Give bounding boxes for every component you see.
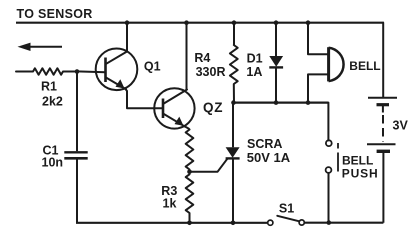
wire bottom rail right <box>305 222 384 224</box>
svg-text:BELL: BELL <box>342 153 373 167</box>
svg-text:TO SENSOR: TO SENSOR <box>17 7 93 21</box>
transistor Q1 <box>96 49 138 91</box>
resistor R4 <box>230 23 238 103</box>
svg-text:1k: 1k <box>163 196 177 210</box>
wire top rail to battery <box>382 23 384 97</box>
wire bell lower stub <box>308 74 328 102</box>
svg-text:3V: 3V <box>393 119 409 133</box>
resistor R3 lower half <box>186 174 194 223</box>
switch BELL PUSH contact bottom <box>326 167 332 173</box>
node SCR cathode / bottom rail <box>231 221 236 226</box>
label D1 value <box>246 52 262 79</box>
bell BELL <box>329 47 344 81</box>
svg-text:S1: S1 <box>279 202 294 216</box>
label R4 value <box>194 51 225 79</box>
transistor QZ <box>154 88 194 128</box>
wire QZ collector to top rail <box>186 23 188 90</box>
resistor R1 <box>16 68 77 74</box>
node R1 / Q1 base junction <box>75 69 80 74</box>
svg-text:50V 1A: 50V 1A <box>247 150 291 165</box>
node R4 / SCR junction <box>231 100 236 105</box>
bell push actuator bar <box>337 143 339 172</box>
svg-text:2k2: 2k2 <box>42 94 63 108</box>
wire bell push to bottom rail <box>328 173 330 223</box>
wire R3 junction to SCR gate <box>190 159 228 172</box>
svg-text:10n: 10n <box>42 156 64 170</box>
wire Q1 collector to top rail <box>126 23 128 52</box>
switch S1 contact left <box>268 220 273 225</box>
label R1 value <box>41 79 63 108</box>
label SCRA value <box>247 137 291 165</box>
resistor R3 upper half <box>185 126 194 169</box>
wire bell upper stub <box>308 23 328 55</box>
switch S1 blade <box>277 216 299 222</box>
diode D1 <box>269 23 283 103</box>
node R3 / SCR gate junction <box>187 170 192 175</box>
svg-text:QZ: QZ <box>203 100 223 115</box>
node D1 / lower rail <box>274 100 279 105</box>
wire Q1 emitter to QZ base <box>126 89 164 108</box>
svg-text:SCRA: SCRA <box>247 137 282 151</box>
svg-text:BELL: BELL <box>349 59 380 73</box>
switch BELL PUSH contact top <box>326 140 332 146</box>
svg-text:R4: R4 <box>194 51 210 65</box>
capacitor C1 <box>64 152 87 158</box>
label BELL PUSH <box>342 153 379 180</box>
wire top rail <box>16 22 384 24</box>
svg-text:Q1: Q1 <box>144 59 161 73</box>
svg-text:330R: 330R <box>196 65 226 79</box>
wire C1 to bottom rail <box>76 160 78 223</box>
node D1 / top rail <box>274 20 279 25</box>
wire node down to C1 <box>76 72 78 152</box>
battery 3V <box>367 98 397 223</box>
label R3 value <box>161 184 177 210</box>
svg-text:R1: R1 <box>41 79 57 93</box>
arrow to sensor <box>18 43 63 51</box>
node R3 / bottom rail <box>187 221 192 226</box>
wire node to Q1 base <box>77 70 106 73</box>
wire bottom rail left <box>76 222 268 224</box>
node bell branch / top rail <box>306 20 311 25</box>
node R4 / top rail <box>232 20 237 25</box>
label C1 value <box>42 143 64 169</box>
thyristor SCRA <box>226 103 240 223</box>
svg-text:PUSH: PUSH <box>342 167 379 181</box>
svg-text:D1: D1 <box>247 52 263 66</box>
svg-text:1A: 1A <box>246 65 262 79</box>
node bell lower branch / lower rail <box>306 100 311 105</box>
wire lower rail to bell push <box>327 103 329 141</box>
wire lower mid rail <box>233 101 328 103</box>
node bell push / bottom rail <box>327 220 332 225</box>
node Q1 collector / top rail <box>125 20 130 25</box>
switch S1 contact right <box>299 220 304 225</box>
node QZ collector / top rail <box>184 20 189 25</box>
